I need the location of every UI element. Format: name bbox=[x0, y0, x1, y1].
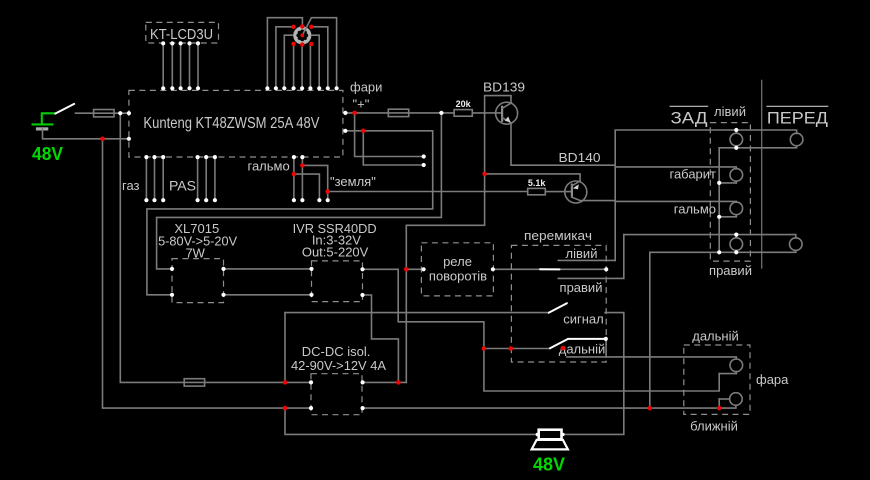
display KT-LCD3U box bbox=[146, 22, 219, 43]
svg-text:ЗАД: ЗАД bbox=[671, 108, 709, 127]
wire praviy contact bbox=[558, 235, 624, 279]
label ZAD with overline bbox=[670, 106, 709, 127]
svg-text:"земля": "земля" bbox=[330, 174, 376, 189]
controller U1 Kunteng box bbox=[129, 90, 343, 157]
svg-text:лівий: лівий bbox=[714, 104, 746, 119]
battery B1 48V bbox=[33, 113, 56, 129]
svg-text:газ: газ bbox=[122, 178, 140, 193]
svg-text:перемикач: перемикач bbox=[524, 228, 592, 243]
wire switch to fuse F1 bbox=[76, 112, 94, 114]
svg-text:DC-DC isol.: DC-DC isol. bbox=[302, 344, 371, 359]
headlight fara dashed box bbox=[684, 345, 750, 414]
lamp L1 rear left turn bbox=[730, 130, 743, 148]
wire dalniy return net bbox=[484, 349, 719, 392]
svg-text:KT-LCD3U: KT-LCD3U bbox=[150, 26, 213, 43]
relay U5 rele povorotiv box bbox=[421, 243, 493, 296]
wire galmo pin 1 bbox=[293, 157, 295, 200]
converter U4 DC-DC isol box bbox=[291, 344, 386, 415]
node DC-DC minus line junction bbox=[283, 406, 288, 411]
wire DC-DC out- line to blizhniy lamp bbox=[363, 405, 736, 408]
pin dots DC-DC bbox=[309, 380, 365, 410]
svg-text:лівий: лівий bbox=[566, 246, 598, 261]
wire fuse F1 to controller + pin bbox=[114, 112, 129, 114]
node rele power tap bbox=[404, 267, 409, 272]
svg-text:20k: 20k bbox=[456, 99, 472, 109]
wire BD140 emitter to BD139 collector junction bbox=[485, 174, 580, 181]
wire right turn return to ground drop bbox=[650, 250, 796, 408]
svg-text:дальній: дальній bbox=[559, 341, 606, 356]
wire relay power tap to rele povorotiv bbox=[406, 268, 423, 270]
converter U2 XL7015 box bbox=[158, 221, 237, 303]
svg-text:48V: 48V bbox=[533, 454, 566, 475]
wire XL7015 out1 to IVR in1 bbox=[224, 268, 312, 270]
switch S4 dalniy blade closed bbox=[550, 339, 568, 348]
wire left turn return bbox=[719, 146, 796, 148]
switch S3 signal blade open bbox=[549, 303, 567, 313]
svg-text:правий: правий bbox=[709, 263, 752, 278]
svg-text:ближній: ближній bbox=[690, 418, 738, 433]
wire lamps common vertical bbox=[718, 148, 720, 253]
wire fari pin1 to fuse F2 bbox=[345, 112, 388, 114]
wire PAS pin 1 bbox=[197, 157, 199, 200]
wire +48V rail down left side bbox=[120, 113, 184, 382]
wire galmo tap 2 bbox=[294, 174, 320, 200]
node dalniy line junctions bbox=[482, 346, 565, 351]
node fari plus taps bbox=[352, 111, 365, 134]
motor connector J1 body bbox=[293, 26, 311, 44]
wire LCD pin 3 bbox=[180, 43, 182, 88]
wire motor pin 6 bbox=[309, 44, 311, 89]
svg-text:Kunteng KT48ZWSM 25A 48V: Kunteng KT48ZWSM 25A 48V bbox=[143, 115, 319, 132]
node lamp ground junctions bbox=[648, 406, 722, 411]
dot switch common contact bbox=[604, 267, 608, 271]
wire motor pin 9 with diagonal to connector center bbox=[303, 18, 337, 89]
node DC-DC plus line junctions bbox=[283, 380, 401, 385]
label PERED with overline bbox=[766, 106, 828, 127]
transistor Q2 BD140 bbox=[565, 181, 587, 203]
svg-text:дальній: дальній bbox=[692, 328, 739, 343]
wire end dots below controller bbox=[144, 198, 330, 202]
wire DC-DC out+ line bbox=[363, 381, 407, 383]
wire -48V rail down left side bbox=[103, 139, 312, 408]
wire spare fari lead 1 bbox=[355, 113, 424, 157]
wire BD139 collector to bus3 bbox=[406, 96, 511, 383]
svg-text:Out:5-220V: Out:5-220V bbox=[302, 245, 369, 260]
wire motor pin 4 bbox=[293, 44, 295, 89]
wire XL7015 out2 to IVR in2 bbox=[224, 294, 312, 296]
rear lamps dashed box bbox=[710, 123, 750, 262]
svg-text:PAS: PAS bbox=[169, 178, 196, 194]
svg-text:5.1k: 5.1k bbox=[528, 178, 547, 188]
svg-text:ПЕРЕД: ПЕРЕД bbox=[767, 108, 829, 127]
wire dalniy contact drop bbox=[605, 339, 607, 357]
node battery minus junction bbox=[100, 137, 105, 142]
lamp L7 dalniy headlamp bbox=[719, 359, 742, 374]
svg-text:42-90V->12V 4A: 42-90V->12V 4A bbox=[291, 358, 386, 373]
wire PAS pin 3 bbox=[214, 157, 216, 200]
fuse F3 lower bbox=[184, 379, 204, 386]
wire LCD pin 2 bbox=[171, 43, 173, 88]
wire IVR out1 to dalniy-signal net bbox=[363, 269, 484, 348]
wire praviy feed bbox=[624, 235, 796, 238]
wire BD140 collector to galmo feed bbox=[582, 200, 615, 202]
svg-text:поворотів: поворотів bbox=[429, 269, 487, 284]
resistor R2 5.1k bbox=[528, 178, 547, 195]
spare wire end dots bbox=[422, 154, 426, 167]
wire BD139 emitter to gabarit feed bbox=[511, 123, 615, 165]
svg-text:фара: фара bbox=[756, 372, 789, 387]
lamp L2 rear gabarit bbox=[719, 169, 742, 183]
wire signal input horizontal bbox=[285, 312, 549, 314]
pin dots XL7015 bbox=[170, 267, 226, 297]
horn LS1 speaker symbol bbox=[532, 430, 568, 450]
wire liviy feed from contact vertical bbox=[615, 130, 796, 260]
junction dot after fuse F2 bbox=[439, 111, 443, 115]
wire gaz pin 2 bbox=[154, 157, 156, 200]
wire dalniy feed to fara bbox=[567, 357, 736, 359]
wire rele out to switch common bbox=[493, 268, 606, 270]
dot dalniy contact bbox=[604, 337, 608, 341]
wire resistor R1 to BD139 base bbox=[472, 112, 502, 114]
wire motor pin 3 bbox=[284, 35, 293, 88]
pin dots controller left and right bbox=[118, 111, 347, 141]
svg-text:сигнал: сигнал bbox=[563, 311, 604, 326]
svg-text:реле: реле bbox=[443, 254, 472, 269]
relay U3 IVR SSR40DD box bbox=[293, 221, 377, 301]
switch block peremykach box bbox=[511, 228, 606, 362]
switch S2 turn blade bbox=[540, 268, 560, 270]
wire motor pin 8 bbox=[312, 27, 328, 89]
svg-text:BD139: BD139 bbox=[483, 79, 525, 94]
divider line between ZAD and PERED bbox=[761, 80, 763, 269]
svg-text:фари: фари bbox=[350, 80, 382, 95]
svg-text:"+": "+" bbox=[353, 97, 370, 112]
wire fari pin2 to bus and XL7015 bbox=[147, 131, 433, 295]
pin dots LCD box bottom bbox=[161, 41, 200, 45]
svg-text:гальмо: гальмо bbox=[248, 159, 290, 174]
lamp L5 front left turn bbox=[790, 133, 803, 146]
node galmo taps bbox=[292, 163, 330, 194]
wire IVR out2 jog to DC-DC out junction bbox=[363, 295, 399, 382]
lamp L6 front right turn bbox=[790, 238, 803, 251]
wire gaz pin 3 bbox=[162, 157, 164, 200]
svg-text:7W: 7W bbox=[185, 246, 205, 261]
resistor R1 20k bbox=[454, 99, 472, 116]
node BD140 emitter junction bbox=[482, 172, 487, 177]
svg-text:гальмо: гальмо bbox=[674, 201, 716, 216]
svg-text:габарит: габарит bbox=[669, 166, 716, 181]
wire motor pin 1 bbox=[267, 18, 302, 89]
fuse F1 bbox=[94, 110, 114, 117]
wire gaz pin 1 bbox=[145, 157, 147, 200]
wire PAS pin 2 bbox=[205, 157, 207, 200]
wire fuse F3 to DC-DC in+ bbox=[205, 381, 311, 383]
wire minus rail lower corner to horn bbox=[285, 408, 536, 434]
wire LCD pin 5 bbox=[197, 43, 199, 88]
wire LCD pin 1 bbox=[162, 43, 164, 88]
pin dots rele povorotiv bbox=[422, 267, 496, 271]
wire signal feed line bbox=[284, 313, 286, 383]
wire dalniy input bbox=[484, 348, 550, 350]
svg-text:правий: правий bbox=[560, 280, 603, 295]
wire motor pin 5 bbox=[301, 45, 303, 89]
wire signal contact to horn bbox=[563, 313, 624, 435]
pin dots controller bottom edge bbox=[144, 155, 304, 159]
wire liviy contact bbox=[558, 259, 615, 261]
wire galmo pin 2 bbox=[301, 157, 303, 200]
wire resistor R2 to BD140 base bbox=[545, 191, 571, 193]
wire dalniy contact white bbox=[568, 338, 606, 340]
lamp L8 blizhniy headlamp bbox=[719, 393, 742, 408]
pin dots controller top edge bbox=[161, 86, 339, 90]
wire galmo feed right segment bbox=[615, 200, 736, 203]
wire +48V bus from fuse junction to XL7015 bbox=[157, 113, 442, 269]
wire LCD pin 4 bbox=[189, 43, 191, 88]
fuse F2 bbox=[388, 109, 408, 116]
lamp L3 rear brake bbox=[719, 202, 742, 217]
wire galmo tap 1 bbox=[302, 165, 327, 200]
wire gabarit feed right segment bbox=[615, 167, 736, 169]
junction dots lamp column bbox=[717, 128, 738, 254]
lamp L4 rear right turn bbox=[730, 235, 743, 253]
wire zemlya line to resistor R2 bbox=[328, 191, 528, 193]
switch S1 battery switch blade bbox=[55, 104, 74, 114]
wire fuse F2 to resistor R1 bbox=[409, 112, 454, 114]
wire battery minus to controller pin bbox=[43, 129, 129, 139]
svg-text:48V: 48V bbox=[32, 143, 64, 164]
transistor Q1 BD139 bbox=[496, 102, 518, 124]
wire motor pin 2 bbox=[276, 27, 293, 89]
connector J1 red pin dots bbox=[291, 24, 313, 47]
svg-text:BD140: BD140 bbox=[559, 150, 601, 165]
pin dots IVR bbox=[309, 267, 364, 297]
wire spare fari lead 2 bbox=[363, 131, 423, 165]
wire motor pin 7 bbox=[312, 35, 320, 88]
